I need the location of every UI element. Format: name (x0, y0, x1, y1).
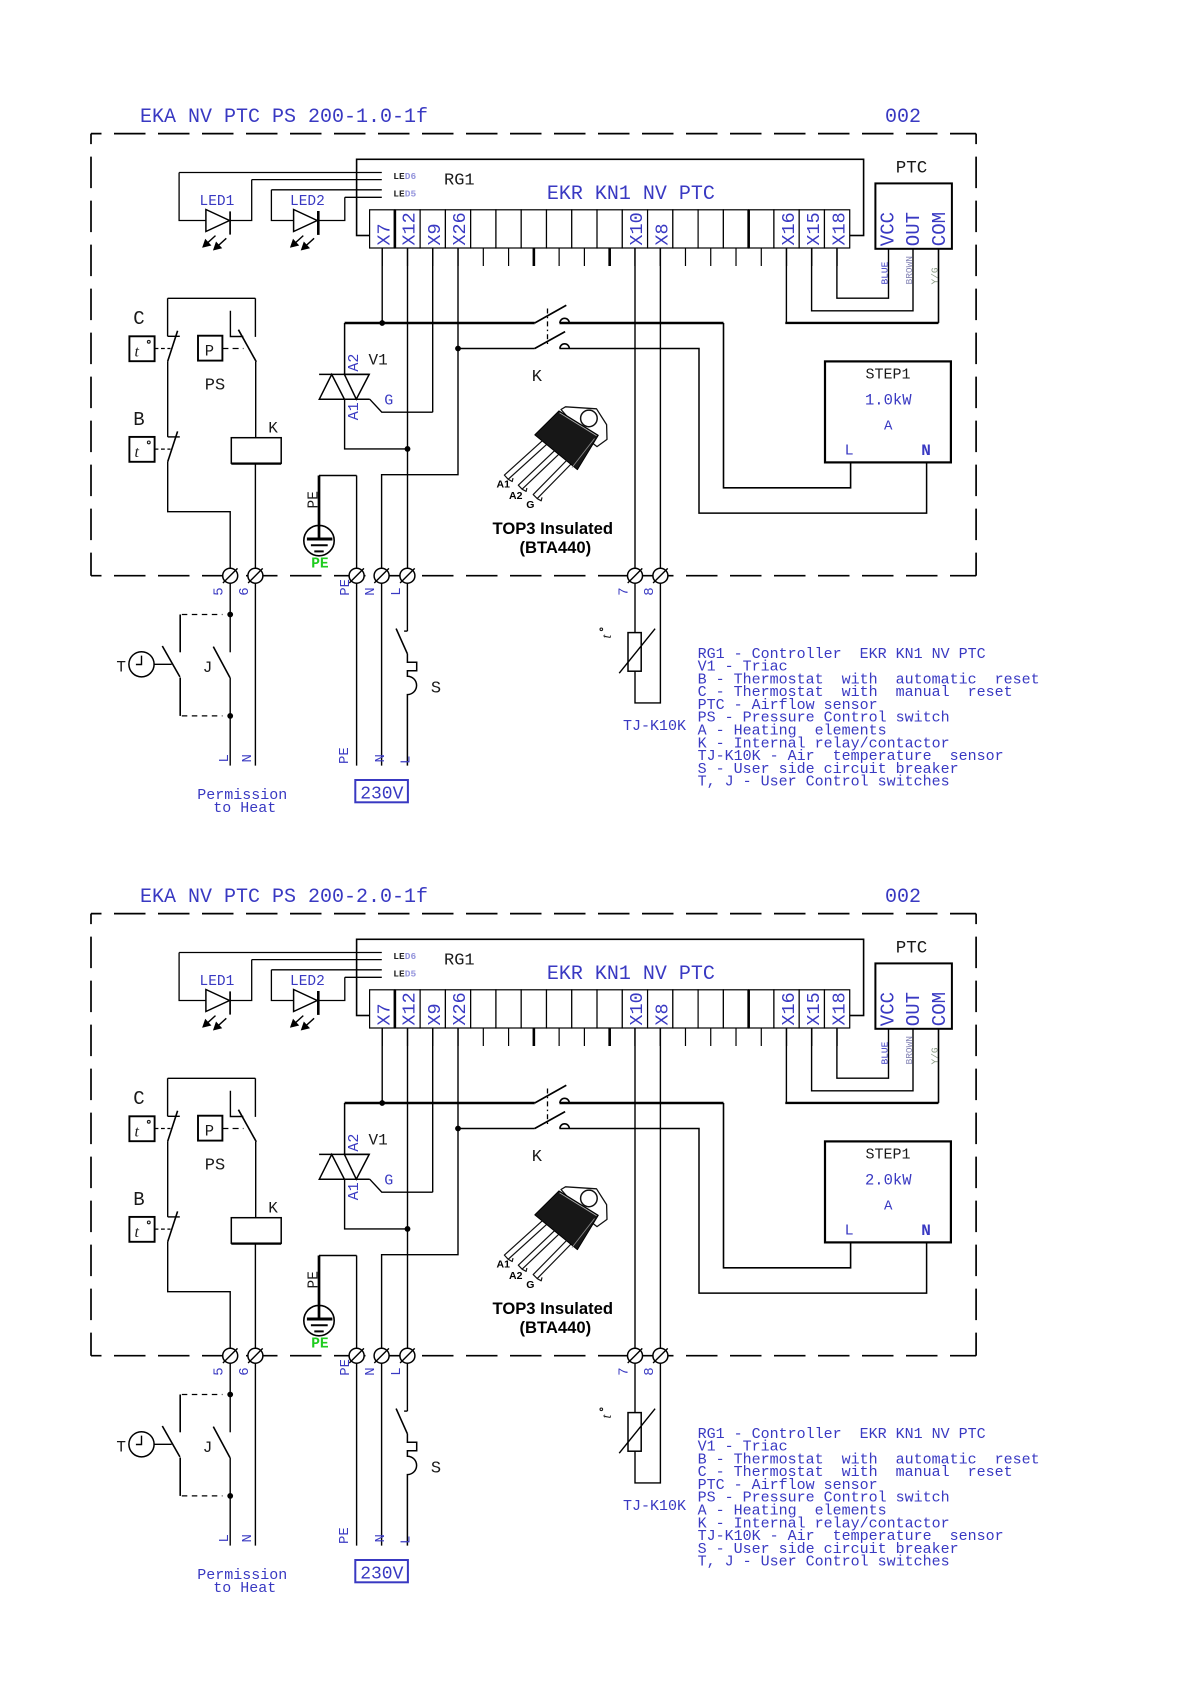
wire LED2 anode riser (271, 970, 293, 1001)
wire L supply upper (406, 1363, 408, 1411)
svg-text:LE: LE (393, 951, 405, 962)
wire PE supply down (356, 583, 358, 765)
svg-text:PE: PE (306, 1271, 322, 1288)
svg-text:PE: PE (338, 579, 354, 596)
contact K mechanical link (547, 309, 549, 346)
controller RG1 box (357, 159, 864, 235)
svg-text:COM: COM (929, 212, 951, 246)
svg-text:B: B (133, 1189, 144, 1211)
svg-text:V1: V1 (369, 351, 388, 369)
boundary terminal PE (349, 1348, 364, 1363)
breaker S latch and coil (407, 1434, 416, 1546)
LED2 diode triangle (294, 990, 318, 1012)
svg-text:7: 7 (616, 587, 632, 595)
svg-text:002: 002 (885, 886, 921, 909)
junction A1 with X12 wire (405, 1226, 411, 1232)
contact K pole2 blade (535, 332, 565, 349)
svg-text:8: 8 (642, 1367, 658, 1375)
svg-text:G: G (526, 499, 534, 511)
svg-text:X8: X8 (652, 1003, 673, 1025)
boundary terminal N (374, 568, 389, 583)
svg-text:TOP3 Insulated: TOP3 Insulated (493, 519, 614, 538)
wire LED2 cathode riser (318, 197, 345, 220)
svg-text:T, J - User Control switches: T, J - User Control switches (698, 1554, 950, 1571)
sensor PTC box (875, 963, 952, 1028)
wire triac gate to X9 (370, 399, 433, 412)
wire X26 down to N corner (382, 1028, 458, 1348)
svg-text:LED2: LED2 (290, 194, 325, 210)
wire X8 down to terminal 8 (659, 248, 661, 568)
svg-text:X16: X16 (779, 212, 800, 245)
svg-text:230V: 230V (360, 785, 403, 805)
triac package drawing TOP3 (504, 1187, 607, 1281)
svg-text:X18: X18 (829, 212, 850, 245)
wire L rail to STEP1 corner (560, 322, 724, 325)
boundary terminal 8 (653, 1348, 668, 1363)
wire terminal 5 down (229, 1363, 231, 1432)
svg-text:X10: X10 (627, 212, 648, 245)
svg-text:A1: A1 (497, 479, 511, 491)
svg-text:(BTA440): (BTA440) (520, 1318, 592, 1337)
wire triac A2 up to L rail (344, 1103, 346, 1154)
svg-text:A2: A2 (509, 1270, 523, 1282)
svg-text:6: 6 (237, 1367, 253, 1375)
terminal pin stubs (381, 1028, 383, 1046)
junction T branch bottom (227, 1493, 233, 1499)
wire N supply down (381, 1363, 383, 1545)
svg-text:A: A (884, 419, 893, 435)
label 230V box (355, 1560, 408, 1582)
protective earth stub (319, 475, 357, 477)
thermostat C contact (167, 1078, 169, 1116)
wire J to junction bottom (229, 678, 231, 766)
timer T clock symbol (129, 652, 154, 677)
svg-text:X7: X7 (374, 223, 395, 245)
svg-text:t: t (135, 1124, 140, 1141)
wire L rail down to STEP1 L (724, 1103, 851, 1268)
wire X9 down to gate (432, 1028, 434, 1192)
wire K coil to terminal 6 (254, 464, 256, 569)
terminal strip thick divider left (394, 990, 397, 1028)
LED2 diode triangle (294, 210, 318, 232)
wire triac gate to X9 (370, 1179, 433, 1192)
svg-text:N: N (363, 1367, 379, 1375)
heater STEP1 box (825, 1141, 951, 1242)
label t-deg sensor (600, 1408, 615, 1419)
terminal strip thick divider right (747, 210, 750, 248)
wire triac A2 up to L rail (344, 323, 346, 374)
wire PS to relay coil K (255, 1142, 257, 1218)
svg-text:P: P (205, 343, 214, 361)
wire terminal 6 down (254, 1363, 256, 1545)
wire X16 to PTC COM (785, 1028, 787, 1103)
label P pressure switch box (198, 1116, 222, 1141)
wire LED1 cathode riser (230, 180, 252, 221)
wire triac A1 down to L node (345, 399, 408, 449)
wire terminal 6 down (254, 583, 256, 765)
wire PS branch top drop (254, 298, 256, 337)
svg-text:LED1: LED1 (200, 194, 235, 210)
svg-text:L: L (217, 1534, 233, 1542)
breaker S blade (396, 629, 407, 654)
wire terminal 7 down to sensor (634, 583, 636, 632)
earth symbol circle (304, 525, 334, 555)
switch J blade (213, 647, 230, 678)
wire N rail to STEP1 N (560, 1129, 927, 1294)
svg-text:K: K (268, 1199, 278, 1217)
contact K pole1 fixed semicircle (560, 318, 569, 323)
sensor TJ-K10K thermistor body (628, 1413, 641, 1452)
pressure switch dashed link (222, 1128, 243, 1130)
wire X18 to PTC VCC (837, 1028, 889, 1078)
dashed unit boundary frame (91, 133, 976, 135)
svg-text:G: G (526, 1279, 534, 1291)
thermostat C actuator dashed link (155, 1128, 171, 1130)
sensor diagonal strike (619, 1409, 655, 1454)
svg-text:STEP1: STEP1 (866, 1147, 911, 1164)
svg-text:BLUE: BLUE (879, 261, 890, 284)
svg-text:K: K (532, 368, 543, 387)
wire X15 to PTC OUT (812, 1028, 913, 1091)
wire C to B (167, 1141, 169, 1217)
boundary terminal 6 (248, 1348, 263, 1363)
wire N rail from X26 junction (458, 348, 535, 350)
wire clock to blade (154, 663, 172, 665)
svg-text:D6: D6 (405, 951, 417, 962)
svg-text:Y/G: Y/G (930, 267, 941, 284)
svg-text:8: 8 (642, 587, 658, 595)
boundary terminal N (374, 1348, 389, 1363)
thermostat C t-box (129, 1116, 154, 1141)
contact K pole1 blade (535, 305, 567, 323)
wire L supply upper (406, 583, 408, 631)
wire clock to blade (154, 1443, 172, 1445)
svg-text:N: N (373, 1534, 389, 1542)
svg-text:RG1: RG1 (444, 952, 475, 971)
svg-text:t: t (135, 344, 140, 361)
sensor diagonal strike (619, 629, 655, 674)
thermostat B contact (168, 1216, 180, 1218)
protective earth stub (319, 1255, 357, 1257)
terminal strip thick divider left (394, 210, 397, 248)
wire X10 down to terminal 7 (634, 248, 636, 568)
contact K mechanical link (547, 1089, 549, 1126)
boundary terminal 7 (628, 1348, 643, 1363)
svg-text:002: 002 (885, 106, 921, 129)
svg-text:T: T (116, 659, 126, 677)
svg-text:C: C (133, 1088, 144, 1110)
junction T branch bottom (227, 713, 233, 719)
wire X7 down to L rail (381, 248, 383, 323)
T branch dashed links (182, 1394, 223, 1396)
svg-text:6: 6 (237, 587, 253, 595)
boundary terminal L (400, 1348, 415, 1363)
svg-text:X9: X9 (425, 223, 446, 245)
wire X12 down to terminal L (407, 1028, 409, 1348)
svg-text:A2: A2 (346, 354, 363, 372)
svg-text:S: S (431, 679, 441, 698)
svg-text:LED1: LED1 (200, 974, 235, 990)
switch J blade (213, 1427, 230, 1458)
terminal pin stubs (381, 248, 383, 266)
svg-text:G: G (384, 1173, 393, 1190)
svg-text:X26: X26 (450, 212, 471, 245)
T branch bracket (179, 1395, 181, 1433)
svg-text:N: N (921, 1222, 931, 1240)
svg-text:A2: A2 (509, 490, 523, 502)
svg-text:PE: PE (337, 747, 353, 764)
wire LED1 cathode to RG1 (252, 959, 382, 961)
boundary terminal L (400, 568, 415, 583)
pressure switch blade (238, 330, 256, 362)
timer T clock symbol (129, 1432, 154, 1457)
boundary terminal 5 (223, 1348, 238, 1363)
svg-text:X10: X10 (627, 992, 648, 1025)
thermostat B actuator dashed link (155, 1228, 171, 1230)
svg-text:7: 7 (616, 1367, 632, 1375)
svg-text:V1: V1 (369, 1131, 388, 1149)
wire LED2 cathode riser (318, 977, 345, 1000)
svg-text:TJ-K10K: TJ-K10K (623, 718, 686, 735)
svg-text:X16: X16 (779, 992, 800, 1025)
svg-text:LE: LE (393, 189, 405, 200)
svg-text:TOP3 Insulated: TOP3 Insulated (493, 1299, 614, 1318)
svg-text:to Heat: to Heat (213, 1580, 276, 1597)
contact K pole1 blade (535, 1085, 567, 1103)
svg-text:D5: D5 (405, 969, 417, 980)
svg-text:LE: LE (393, 171, 405, 182)
svg-text:PE: PE (337, 1527, 353, 1544)
terminal strip cells (370, 990, 395, 1028)
junction X26 on N rail (455, 1126, 461, 1132)
wire L rail A2 segment (345, 322, 535, 325)
svg-text:X15: X15 (804, 212, 825, 245)
wire terminal 7 down to sensor (634, 1363, 636, 1412)
svg-text:X26: X26 (450, 992, 471, 1025)
svg-text:COM: COM (929, 992, 951, 1026)
thermostat C contact (167, 298, 169, 336)
junction T branch top (227, 612, 233, 618)
svg-text:N: N (921, 442, 931, 460)
svg-text:LED2: LED2 (290, 974, 325, 990)
wire PE supply down (356, 1363, 358, 1545)
svg-text:L: L (845, 443, 854, 460)
wire N rail from X26 junction (458, 1128, 535, 1130)
triac package drawing TOP3 (504, 407, 607, 501)
switch T blade (162, 646, 180, 677)
T branch bracket (179, 615, 181, 653)
terminal strip cells (370, 210, 395, 248)
pressure switch dashed link (222, 348, 243, 350)
svg-text:LE: LE (393, 969, 405, 980)
svg-text:X18: X18 (829, 992, 850, 1025)
svg-text:RG1: RG1 (444, 172, 475, 191)
svg-text:PS: PS (205, 376, 225, 395)
wire X16 to PTC COM (785, 248, 787, 323)
svg-text:T: T (116, 1439, 126, 1457)
contact K pole1 fixed semicircle (560, 1098, 569, 1103)
boundary terminal 8 (653, 568, 668, 583)
svg-text:230V: 230V (360, 1565, 403, 1585)
LED1 emission arrows (203, 1016, 215, 1027)
svg-text:BROWN: BROWN (904, 256, 915, 285)
svg-text:X12: X12 (400, 212, 421, 245)
svg-text:B: B (133, 409, 144, 431)
LED1 diode triangle (206, 210, 230, 232)
wire LED2 cathode to RG1 (345, 196, 382, 198)
wire L rail to STEP1 corner (560, 1102, 724, 1105)
svg-text:to Heat: to Heat (213, 800, 276, 817)
thermostat B t-box (129, 1217, 154, 1242)
svg-text:5: 5 (212, 1367, 228, 1375)
svg-text:N: N (240, 754, 256, 762)
wire triac A1 down to L node (345, 1179, 408, 1229)
wire LED2 cathode to RG1 (345, 976, 382, 978)
svg-text:EKR KN1 NV PTC: EKR KN1 NV PTC (547, 963, 715, 986)
wire PS branch top drop (254, 1078, 256, 1117)
svg-text:S: S (431, 1459, 441, 1478)
svg-text:N: N (240, 1534, 256, 1542)
wire LED2 anode to RG1 (271, 969, 381, 971)
wire X26 down to N corner (382, 248, 458, 568)
svg-text:D6: D6 (405, 171, 417, 182)
svg-text:T, J - User Control switches: T, J - User Control switches (698, 774, 950, 791)
wire LED2 anode to RG1 (271, 189, 381, 191)
wire LED1 cathode riser (230, 960, 252, 1001)
svg-text:PS: PS (205, 1156, 225, 1175)
relay coil K box (231, 1218, 281, 1244)
wire sensor to terminal 8 (635, 583, 660, 703)
thermostat B actuator dashed link (155, 448, 171, 450)
svg-text:STEP1: STEP1 (866, 367, 911, 384)
boundary terminal 5 (223, 568, 238, 583)
wire top rail of C/PS branch (168, 297, 256, 299)
LED2 cathode bar (317, 991, 320, 1015)
thermostat C actuator dashed link (155, 348, 171, 350)
controller RG1 box (357, 939, 864, 1015)
svg-text:PTC: PTC (896, 158, 928, 178)
wire LED1 anode riser (179, 953, 206, 1001)
svg-text:PE: PE (306, 491, 322, 508)
breaker S blade (396, 1409, 407, 1434)
svg-text:C: C (133, 308, 144, 330)
LED1 cathode bar (229, 991, 231, 1014)
wire N supply down (381, 583, 383, 765)
boundary terminal 7 (628, 568, 643, 583)
svg-text:BLUE: BLUE (879, 1041, 890, 1064)
wire PS to relay coil K (255, 362, 257, 438)
wire X12 down to terminal L (407, 248, 409, 568)
sensor TJ-K10K thermistor body (628, 633, 641, 672)
label t-deg sensor (600, 628, 615, 639)
svg-text:N: N (373, 754, 389, 762)
wire X18 to PTC VCC (837, 248, 889, 298)
wire X10 down to terminal 7 (634, 1028, 636, 1348)
svg-text:G: G (384, 393, 393, 410)
svg-text:EKA NV PTC PS 200-1.0-1f: EKA NV PTC PS 200-1.0-1f (140, 106, 428, 129)
wire X9 down to gate (432, 248, 434, 412)
svg-text:L: L (217, 754, 233, 762)
svg-text:PE: PE (338, 1359, 354, 1376)
svg-text:A1: A1 (346, 402, 363, 420)
T branch dashed links (182, 614, 223, 616)
wire L rail A2 segment (345, 1102, 535, 1105)
svg-text:L: L (845, 1223, 854, 1240)
wire J to junction bottom (229, 1458, 231, 1546)
svg-text:X7: X7 (374, 1003, 395, 1025)
svg-text:K: K (532, 1148, 543, 1167)
wire L rail down to STEP1 L (724, 323, 851, 488)
sensor PTC box (875, 183, 952, 248)
svg-text:1.0kW: 1.0kW (865, 392, 912, 410)
svg-text:Y/G: Y/G (930, 1047, 941, 1064)
wire terminal 5 down (229, 583, 231, 652)
terminal strip thick divider right (747, 990, 750, 1028)
svg-text:PTC: PTC (896, 938, 928, 958)
svg-text:VCC: VCC (878, 992, 900, 1026)
svg-text:t: t (135, 444, 140, 461)
heater STEP1 box (825, 361, 951, 462)
wire N rail to STEP1 N (560, 349, 927, 514)
boundary terminal 6 (248, 568, 263, 583)
junction X26 on N rail (455, 346, 461, 352)
svg-text:N: N (363, 587, 379, 595)
triac V1 symbol (319, 1153, 369, 1155)
LED2 emission arrows (291, 1016, 303, 1027)
svg-text:A1: A1 (497, 1259, 511, 1271)
wire top rail of C/PS branch (168, 1077, 256, 1079)
wire PE down to terminal (356, 1256, 358, 1349)
wire LED1 cathode to RG1 (252, 179, 382, 181)
svg-text:t: t (135, 1224, 140, 1241)
LED1 cathode bar (229, 211, 231, 234)
svg-text:A: A (884, 1199, 893, 1215)
svg-text:D5: D5 (405, 189, 417, 200)
wire LED1 anode riser (179, 173, 206, 221)
junction X7 on L rail (379, 320, 385, 326)
wire PE down to terminal (356, 476, 358, 569)
wire sensor to terminal 8 (635, 1363, 660, 1483)
switch T blade (162, 1426, 180, 1457)
svg-text:X12: X12 (400, 992, 421, 1025)
svg-text:PE: PE (311, 1337, 329, 1353)
label P pressure switch box (198, 336, 222, 361)
svg-text:L: L (389, 587, 405, 595)
relay coil K box (231, 438, 281, 464)
LED2 cathode bar (317, 211, 320, 235)
svg-text:EKR KN1 NV PTC: EKR KN1 NV PTC (547, 183, 715, 206)
wire C to B (167, 361, 169, 437)
svg-text:OUT: OUT (903, 212, 925, 246)
LED1 diode triangle (206, 990, 230, 1012)
thermostat B t-box (129, 437, 154, 462)
svg-text:A2: A2 (346, 1134, 363, 1152)
wire LED1 anode to RG1 (179, 952, 382, 954)
svg-text:P: P (205, 1123, 214, 1141)
dashed unit boundary frame (91, 913, 976, 915)
triac V1 symbol (319, 373, 369, 375)
wire B down to terminal 5 (168, 1242, 231, 1348)
pressure switch blade (238, 1110, 256, 1142)
junction T branch top (227, 1392, 233, 1398)
label 230V box (355, 780, 408, 802)
pressure switch fixed hook contact (230, 1091, 243, 1117)
svg-text:A1: A1 (346, 1182, 363, 1200)
svg-text:J: J (203, 1439, 213, 1457)
svg-text:L: L (399, 1536, 415, 1544)
contact K pole2 fixed semicircle (560, 344, 569, 349)
svg-text:5: 5 (212, 587, 228, 595)
